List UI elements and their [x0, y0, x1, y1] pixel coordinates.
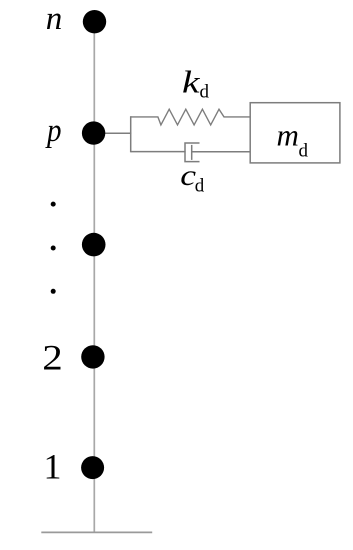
wire: bracket vertical	[130, 116, 132, 152]
damper c_d cylinder (cup open right)	[185, 143, 200, 162]
ellipsis dot 3	[51, 289, 56, 294]
mass m_d box	[250, 103, 340, 163]
node p	[82, 121, 105, 144]
node mid (unlabeled)	[82, 233, 106, 257]
wire: damper left lead	[131, 151, 186, 153]
wire: main column vertical line	[93, 21, 95, 532]
node 2	[81, 345, 104, 368]
svg-text:p: p	[45, 113, 61, 149]
damper piston	[191, 145, 193, 160]
wire: damper rod to mass	[192, 151, 251, 153]
svg-text:m: m	[277, 118, 299, 153]
svg-text:d: d	[299, 141, 309, 162]
svg-text:2: 2	[42, 338, 63, 378]
ground base line	[41, 531, 152, 533]
svg-text:k: k	[182, 64, 200, 100]
node 1	[81, 456, 104, 479]
svg-text:n: n	[46, 1, 63, 37]
spring k_d (zigzag with leads)	[131, 109, 251, 125]
svg-text:d: d	[195, 176, 205, 197]
ellipsis dot 1	[51, 202, 56, 207]
svg-text:d: d	[200, 82, 210, 103]
wire: node p to spring-damper bracket	[94, 132, 131, 134]
svg-text:1: 1	[44, 447, 62, 487]
ellipsis dot 2	[51, 246, 56, 251]
node n	[83, 10, 106, 33]
